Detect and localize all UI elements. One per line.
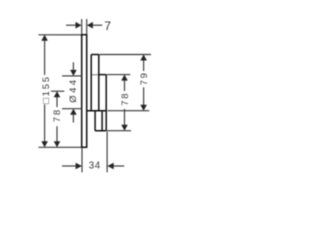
- left dim 78 arrow up: [54, 91, 61, 97]
- left dim 78 centre reference line: [51, 90, 64, 92]
- dim 34 arrow right: [76, 163, 82, 170]
- dimension 7 extension lines: [82, 19, 87, 34]
- left dim 78 line: [56, 97, 58, 142]
- right dim 78 bottom extension line: [107, 130, 131, 132]
- svg-text:34: 34: [89, 161, 101, 172]
- dim 155 line: [44, 40, 46, 142]
- hidden edge of lower handle behind upper box: [92, 74, 98, 76]
- dim 155 arrow up: [41, 35, 48, 41]
- right dim 79 bottom extension line: [108, 110, 150, 112]
- svg-text:7: 7: [104, 19, 111, 33]
- upper handle box: [91, 55, 99, 111]
- svg-text:Ø44: Ø44: [68, 78, 79, 103]
- right dim 79 top extension line: [99, 54, 151, 56]
- dim 34 right extension line: [106, 132, 108, 173]
- right dim 79 line: [143, 60, 145, 105]
- dia 44 arrow down: [70, 70, 77, 76]
- dim 34 left tail: [62, 165, 76, 167]
- left dim 78 arrow down: [54, 141, 61, 147]
- dia 44 lower tail: [72, 114, 74, 122]
- lower handle front part: [99, 75, 106, 131]
- dim 34 right tail: [113, 165, 124, 167]
- dim 155 arrow down: [41, 141, 48, 147]
- dim 155 top extension line: [39, 34, 82, 36]
- svg-text:78: 78: [52, 108, 63, 122]
- dimension 7 line right tail: [92, 24, 102, 26]
- dim 34 arrow left: [107, 163, 113, 170]
- wall plate (side view): [81, 35, 87, 148]
- right dim 78 arrow down: [121, 125, 128, 131]
- right dim 78 top extension line: [107, 74, 130, 76]
- dimension 7 line left tail: [66, 24, 76, 26]
- dim 34 left extension line: [81, 148, 83, 172]
- svg-text:□155: □155: [41, 75, 52, 104]
- svg-text:78: 78: [120, 92, 131, 106]
- dia 44 bottom extension line: [62, 108, 82, 110]
- dimension 7 arrow left: [76, 22, 82, 29]
- right dim 78 line: [124, 80, 126, 125]
- dia 44 upper tail: [72, 62, 74, 70]
- lower handle lower profile: [95, 111, 106, 131]
- right dim 79 arrow up: [140, 55, 147, 61]
- svg-text:79: 79: [139, 71, 150, 85]
- right dim 78 arrow up: [121, 75, 128, 81]
- dimension 7 arrow right: [87, 22, 93, 29]
- right dim 79 arrow down: [140, 105, 147, 111]
- dia 44 arrow up: [70, 109, 77, 115]
- dia 44 top extension line: [62, 75, 82, 77]
- upper handle bottom edge: [87, 110, 106, 112]
- dim 155 bottom extension line: [39, 146, 82, 148]
